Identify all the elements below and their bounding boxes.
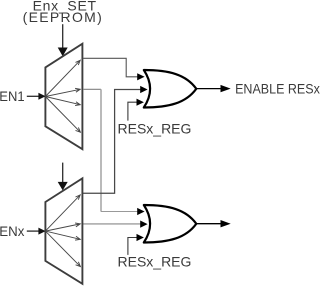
- op: OR gate U1: [144, 70, 197, 108]
- mux1 internal fan arrows: [45, 60, 80, 132]
- wire mux1 output B down to OR2 input 1: [83, 88, 101, 90]
- wire mux2 output B to OR2 input 2: [83, 223, 142, 225]
- OR gate U2 input arrowheads: [137, 208, 148, 241]
- wire mux1 output A to OR1 input 1: [83, 58, 139, 77]
- svg-text:RESx_REG: RESx_REG: [118, 121, 192, 137]
- mux2 internal fan arrows: [45, 195, 80, 267]
- wire OR1 output to ENABLE RESx: [196, 88, 222, 90]
- OR gate U1 input arrowheads: [137, 73, 148, 106]
- multiplexer MUX1 (EN1 demux trapezoid): [45, 44, 82, 150]
- svg-text:ENx: ENx: [0, 224, 25, 239]
- multiplexer MUX2 (ENx demux trapezoid): [45, 178, 82, 283]
- wire Enx_SET select arrow into mux1: [62, 24, 64, 48]
- wire EN1 input arrow: [27, 95, 39, 97]
- wire Enx_SET select arrow into mux2: [62, 163, 64, 183]
- wire RESx_REG stub to OR1 input 3: [128, 102, 138, 120]
- svg-text:(EEPROM): (EEPROM): [23, 9, 102, 25]
- op: OR gate U2: [144, 205, 197, 243]
- svg-text:RESx_REG: RESx_REG: [118, 254, 192, 270]
- svg-text:ENABLE RESx: ENABLE RESx: [235, 81, 320, 97]
- wire OR2 output arrow: [196, 223, 222, 225]
- wire RESx_REG stub to OR2 input 3: [128, 238, 138, 255]
- svg-text:EN1: EN1: [0, 88, 25, 104]
- wire mux2 output A up to OR1 input 2: [83, 90, 142, 194]
- wire ENx input arrow: [27, 230, 39, 232]
